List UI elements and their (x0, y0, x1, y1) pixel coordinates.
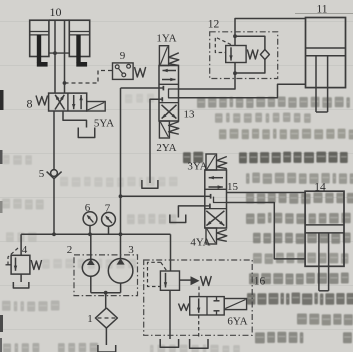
wire sequence valve to tank (169, 290, 171, 339)
svg-text:2YA: 2YA (156, 142, 176, 154)
6YA solenoid (224, 299, 246, 310)
pressure gauge 7 (102, 212, 116, 234)
wire valve13 T to tank (150, 99, 159, 183)
check valve 5 (47, 170, 62, 179)
svg-text:8: 8 (27, 97, 33, 111)
valve 15 top solenoid 3YA (206, 154, 217, 170)
cylinder 10 (twin clamp cylinders) (30, 20, 90, 66)
valve 15 bottom solenoid 4YA (206, 228, 217, 244)
valve 15 bottom spring (217, 230, 227, 242)
wire check5-to-manifold (53, 179, 55, 235)
wire valve12-to-cylinder11 cap (235, 19, 306, 37)
valve 15 top spring (217, 157, 227, 169)
wire valve15 A-port to cylinder14 cap (227, 192, 306, 194)
tank in box 16 right (190, 339, 208, 348)
node riser P junction (119, 194, 123, 198)
node pipeA junction (53, 51, 57, 55)
wire LP manifold (21, 233, 170, 235)
tank under valve 15 (170, 215, 186, 223)
wire valve13 A-port to valve 12 (179, 73, 236, 89)
enclosure pump unit (dash-dot) (74, 255, 138, 296)
svg-text:10: 10 (50, 5, 62, 19)
svg-text:4: 4 (22, 244, 28, 256)
pressure gauge 6 (83, 212, 97, 235)
node valve12 lower junction (233, 71, 237, 75)
svg-text:4YA: 4YA (190, 237, 210, 249)
pilot dash 6YA valve to tank (198, 315, 200, 339)
pump 2 (82, 234, 99, 292)
svg-text:7: 7 (105, 203, 111, 215)
scan edge artifacts (0, 90, 4, 110)
2/2 valve 6YA (190, 297, 225, 315)
svg-text:9: 9 (120, 50, 126, 62)
enclosure box 16 (dash-dot) (144, 260, 253, 335)
wire manifold down to box16 (170, 234, 172, 271)
svg-text:16: 16 (254, 276, 266, 288)
svg-text:2: 2 (67, 244, 73, 256)
valve 13 top solenoid 1YA (159, 46, 168, 66)
tank under filter (98, 345, 116, 352)
6YA valve spring (179, 304, 189, 311)
filter 1 (95, 308, 117, 328)
wire valve12 lower-to-square (234, 63, 236, 74)
valve 12 pilot dashes (215, 37, 231, 52)
valve 12 square (226, 46, 246, 63)
svg-text:6: 6 (85, 202, 91, 214)
valve 8 spring (36, 96, 48, 106)
node manifold x check5 (52, 232, 56, 236)
valve 13 body (159, 66, 179, 122)
relief valve 4 pilot dash (8, 248, 18, 265)
svg-text:11: 11 (316, 4, 327, 16)
wire valve8-to-check5 (53, 111, 55, 170)
wire valve13 B-port to cylinder11 rod side (179, 84, 306, 98)
wire suction to filter (105, 293, 107, 308)
valve 13 bottom spring (169, 122, 179, 135)
wire check bypass bottom (235, 60, 265, 74)
wire riser-to-valve15 P (121, 195, 205, 197)
svg-text:14: 14 (314, 182, 326, 194)
node suction junction (104, 291, 108, 295)
node manifold x pump2 (88, 232, 92, 236)
sequence valve spring side (180, 279, 191, 281)
pilot line to pressure switch 9 (dashed) (65, 71, 113, 84)
pilot dash to 6YA valve (198, 287, 200, 297)
enclosure box 12 (dash-dot) (210, 32, 278, 79)
valve 15 body (205, 170, 227, 228)
tank under valve 4 (13, 282, 29, 288)
wire pipe A cylinder10-to-valve8 (54, 20, 56, 93)
wire pump suction manifold (91, 292, 121, 294)
node manifold x riser (119, 232, 123, 236)
wire pipe B cylinder10-to-valve8 (64, 20, 66, 93)
wire valve8 to tank (63, 111, 87, 128)
valve 13 bottom solenoid 2YA (159, 121, 169, 138)
wire filter to tank (105, 328, 107, 345)
svg-text:12: 12 (208, 19, 220, 31)
node pipeB pilot branch (63, 81, 67, 85)
pressure switch 9 (113, 63, 146, 80)
svg-text:5YA: 5YA (94, 118, 114, 130)
cylinder 14 (305, 191, 344, 291)
relief valve 4 (11, 234, 41, 282)
valve 13 top spring (169, 53, 179, 66)
svg-text:1: 1 (87, 313, 93, 325)
svg-text:1YA: 1YA (156, 33, 176, 45)
svg-text:15: 15 (227, 181, 239, 193)
check valve in box 12 (260, 50, 269, 60)
svg-text:3: 3 (128, 244, 134, 256)
sequence valve in box 16 (160, 271, 179, 290)
wire riser-to-valve13 P (121, 87, 160, 89)
wire valve12 square-to-upper (234, 36, 236, 45)
wire valve15 B-port to cylinder14 rod side (227, 203, 306, 259)
sequence valve pilot dashes (148, 262, 161, 286)
valve 8 solenoid 5YA (87, 102, 106, 112)
ruled paper lines (295, 13, 353, 15)
wire pump3 riser (120, 88, 122, 258)
valve 12 spring (247, 50, 258, 60)
wire valve15 T to tank (178, 206, 204, 218)
tank under valve 8 (78, 128, 95, 138)
node valve12 upper junction (233, 34, 237, 38)
tank in box 16 left (160, 339, 178, 347)
tank under valve 13 (142, 180, 158, 188)
pump 3 (108, 258, 133, 293)
svg-text:5: 5 (39, 168, 45, 180)
cylinder 11 (306, 18, 346, 113)
svg-text:3YA: 3YA (187, 161, 207, 173)
wire check bypass top (235, 36, 265, 49)
svg-text:13: 13 (184, 109, 196, 121)
svg-text:6YA: 6YA (227, 316, 247, 328)
valve 8 body (49, 93, 87, 111)
bleed-through text rows (197, 97, 350, 109)
